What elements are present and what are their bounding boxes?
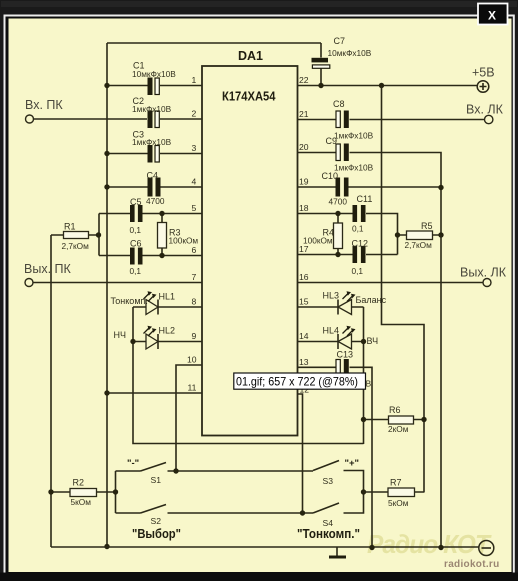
node R5 left — [395, 232, 400, 237]
resistor R6 — [364, 405, 425, 434]
svg-text:"Выбор": "Выбор" — [132, 527, 181, 541]
svg-text:Баланс: Баланс — [356, 295, 387, 305]
capacitor C8 — [333, 99, 374, 141]
svg-text:100кОм: 100кОм — [169, 236, 199, 246]
svg-text:HL4: HL4 — [323, 326, 340, 336]
svg-text:HL2: HL2 — [159, 326, 176, 336]
node R3 bottom — [159, 253, 164, 258]
svg-text:14: 14 — [299, 331, 309, 341]
svg-text:S2: S2 — [151, 516, 162, 526]
LED HL2 — [133, 326, 202, 350]
capacitor C3 — [132, 130, 172, 163]
svg-text:С13: С13 — [337, 350, 354, 360]
svg-text:11: 11 — [188, 383, 197, 393]
node C7-pin22 junction — [318, 83, 323, 88]
switch S3 — [313, 458, 364, 492]
capacitor C5 — [130, 197, 143, 235]
wire HL3/HL4 right link down — [363, 307, 365, 444]
svg-text:НЧ: НЧ — [114, 330, 127, 340]
resistor R5 — [398, 221, 442, 250]
svg-text:13: 13 — [299, 357, 309, 367]
svg-text:S1: S1 — [151, 475, 162, 485]
svg-text:18: 18 — [299, 203, 309, 213]
wire +5V rail down right side — [382, 86, 425, 493]
svg-text:100кОм: 100кОм — [303, 236, 333, 246]
svg-text:Тонкомп.: Тонкомп. — [111, 296, 148, 306]
wire pin 4 — [107, 186, 202, 188]
svg-text:0,1: 0,1 — [130, 225, 142, 235]
resistor R7 — [364, 478, 425, 509]
svg-text:С5: С5 — [130, 197, 142, 207]
svg-text:"-": "-" — [127, 458, 139, 469]
wire pin 3 — [107, 153, 202, 155]
node rail pin11 — [104, 390, 109, 395]
wire Вх.ПК input to C2 — [34, 118, 148, 120]
svg-text:1мкФх10В: 1мкФх10В — [132, 137, 172, 147]
svg-text:2: 2 — [192, 109, 197, 119]
svg-text:2кОм: 2кОм — [388, 424, 409, 434]
terminal Вых. ПК — [24, 262, 72, 287]
svg-text:"Тонкомп.": "Тонкомп." — [297, 527, 360, 541]
svg-text:"+": "+" — [345, 458, 360, 469]
svg-text:Вых. ЛК: Вых. ЛК — [460, 266, 507, 280]
resistor R1 — [51, 222, 99, 252]
node +5V rail junction — [379, 83, 384, 88]
svg-text:15: 15 — [299, 297, 309, 307]
svg-text:1мкФх10В: 1мкФх10В — [334, 163, 374, 173]
node right common ground — [438, 545, 443, 550]
node HL2 link — [130, 339, 135, 344]
svg-text:20: 20 — [299, 142, 309, 152]
node R6 left — [361, 417, 366, 422]
wire right common down to ground — [440, 235, 442, 548]
svg-text:C10: C10 — [322, 171, 339, 181]
tooltip 01.gif — [234, 373, 366, 389]
node rail bottom — [104, 544, 109, 549]
node rail pin1 — [104, 83, 109, 88]
switch S1 — [116, 458, 314, 485]
wire pin 11 to rail — [107, 392, 202, 394]
svg-text:R7: R7 — [390, 478, 402, 488]
svg-text:2,7кОм: 2,7кОм — [62, 241, 90, 251]
wire pin 19 through C10 — [298, 186, 442, 188]
node R1 right — [96, 232, 101, 237]
capacitor C2 — [132, 96, 172, 128]
svg-text:C11: C11 — [357, 194, 373, 204]
node rail pin4 — [104, 184, 109, 189]
svg-text:Вх. ПК: Вх. ПК — [25, 98, 63, 112]
capacitor C1 — [132, 61, 176, 96]
wire pin 10 to S1 — [176, 365, 202, 471]
ground symbol — [329, 548, 346, 558]
svg-text:22: 22 — [299, 75, 309, 85]
svg-text:16: 16 — [299, 272, 309, 282]
node R4 top — [335, 211, 340, 216]
svg-text:Вых. ПК: Вых. ПК — [24, 262, 72, 276]
capacitor C7 — [312, 36, 372, 68]
wire pin 18 through C11 — [298, 214, 398, 255]
terminal Вх. ЛК — [466, 103, 504, 124]
wire left common rail — [106, 43, 108, 547]
svg-text:S3: S3 — [323, 476, 334, 486]
LED HL4 — [298, 326, 364, 350]
svg-text:radiokot.ru: radiokot.ru — [444, 559, 500, 570]
capacitor C11 — [352, 194, 372, 234]
svg-text:C9: C9 — [326, 136, 338, 146]
svg-text:ВЧ: ВЧ — [367, 336, 379, 346]
svg-text:4700: 4700 — [329, 197, 348, 207]
node S3-S4-R7 junction — [361, 489, 366, 494]
close button X — [478, 4, 508, 25]
LED HL3 — [298, 291, 364, 315]
wire pin 7 from Вых.ПК — [33, 282, 202, 284]
svg-text:21: 21 — [299, 109, 309, 119]
svg-text:X: X — [488, 9, 496, 23]
capacitor C4 — [146, 171, 165, 207]
wire bottom ground rail — [51, 546, 479, 548]
wire C7 vertical — [320, 43, 322, 86]
capacitor C10 — [322, 171, 349, 207]
switch S4 — [313, 492, 364, 528]
svg-text:R1: R1 — [64, 222, 76, 232]
svg-text:5кОм: 5кОм — [388, 498, 409, 508]
svg-text:1: 1 — [192, 75, 197, 85]
svg-text:6: 6 — [192, 245, 197, 255]
LED HL1 — [133, 291, 202, 314]
wire left outer rail — [50, 235, 52, 547]
svg-text:4: 4 — [192, 177, 197, 187]
svg-text:С6: С6 — [130, 239, 142, 249]
capacitor C12 — [352, 239, 369, 277]
svg-text:К174ХА54: К174ХА54 — [222, 90, 276, 104]
wire pin 21 through C8 — [298, 119, 485, 121]
node R2 right — [113, 489, 118, 494]
svg-text:3: 3 — [192, 143, 197, 153]
IC DA1 K174XA54 — [202, 49, 298, 436]
svg-text:8: 8 — [192, 297, 197, 307]
svg-text:1мкФх10В: 1мкФх10В — [334, 131, 374, 141]
node HL4 link — [361, 339, 366, 344]
node S1 pin10 junction — [173, 468, 178, 473]
svg-text:C8: C8 — [333, 99, 345, 109]
svg-text:10мкФх10В: 10мкФх10В — [132, 69, 176, 79]
wire pin 16 to Вых.ЛК — [298, 282, 484, 284]
wire pin 13 through C13 to ground — [298, 367, 373, 547]
svg-text:Радио КОТ: Радио КОТ — [367, 529, 492, 559]
svg-text:19: 19 — [299, 177, 309, 187]
wire pin 2 from C2 — [160, 118, 202, 120]
node pin12 S4 wire — [300, 510, 305, 515]
svg-text:C7: C7 — [334, 36, 346, 46]
wire pin 22 to +5V — [298, 85, 478, 87]
wire pin 17 through C12 — [298, 254, 398, 256]
wire top run to C7 — [107, 42, 321, 44]
resistor R3 — [158, 214, 199, 256]
svg-text:5кОм: 5кОм — [71, 497, 92, 507]
svg-text:7: 7 — [192, 272, 197, 282]
wire pin 5 through C5 — [99, 213, 202, 215]
svg-text:R6: R6 — [389, 405, 401, 415]
node pin13 ground rail — [369, 545, 374, 550]
svg-text:0,1: 0,1 — [130, 266, 142, 276]
svg-text:HL1: HL1 — [159, 292, 176, 302]
resistor R4 — [303, 214, 343, 255]
svg-text:Вх. ЛК: Вх. ЛК — [466, 103, 504, 117]
node R6 right — [421, 417, 426, 422]
wire S1-S2 left link — [115, 471, 117, 513]
svg-text:R2: R2 — [73, 478, 85, 488]
svg-text:17: 17 — [299, 244, 309, 254]
terminal minus — [479, 541, 494, 556]
svg-text:R5: R5 — [421, 221, 433, 231]
svg-text:4700: 4700 — [146, 196, 165, 206]
svg-text:1мкФх10В: 1мкФх10В — [132, 104, 172, 114]
node R2 left — [48, 489, 53, 494]
wire pin 12 down to S4 — [298, 394, 303, 513]
svg-text:C4: C4 — [147, 171, 159, 181]
svg-text:01.gif; 657 x 722 (@78%): 01.gif; 657 x 722 (@78%) — [236, 375, 358, 389]
capacitor C13 — [332, 350, 372, 389]
node pin19 right rail — [438, 185, 443, 190]
node R3 top — [159, 211, 164, 216]
wire pin 6 through C6 — [99, 255, 202, 257]
terminal +5V — [472, 66, 495, 93]
switch S2 — [116, 505, 314, 527]
node R5 right — [438, 232, 443, 237]
capacitor C9 — [326, 136, 374, 173]
resistor R2 — [51, 478, 116, 508]
svg-text:+5В: +5В — [472, 66, 495, 80]
wire pin 1 — [107, 85, 202, 87]
wire pin 20 through C9 — [298, 153, 442, 236]
svg-text:10мкФх10В: 10мкФх10В — [328, 48, 372, 58]
svg-text:10: 10 — [187, 355, 197, 365]
svg-text:HL3: HL3 — [323, 291, 340, 301]
svg-text:0,1: 0,1 — [352, 224, 364, 234]
wire C5/C6 left link — [98, 214, 100, 256]
svg-text:5: 5 — [192, 203, 197, 213]
svg-text:2,7кОм: 2,7кОм — [405, 240, 433, 250]
terminal Вых. ЛК — [460, 266, 507, 287]
svg-text:9: 9 — [192, 331, 197, 341]
wire HL1/HL2 left link down — [133, 307, 364, 444]
svg-text:C12: C12 — [352, 239, 369, 249]
node rail pin3 — [104, 151, 109, 156]
terminal Вх. ПК — [25, 98, 63, 123]
capacitor C6 — [130, 239, 143, 277]
svg-text:0,1: 0,1 — [352, 266, 364, 276]
svg-text:DA1: DA1 — [238, 49, 263, 63]
node R4 bottom — [335, 252, 340, 257]
